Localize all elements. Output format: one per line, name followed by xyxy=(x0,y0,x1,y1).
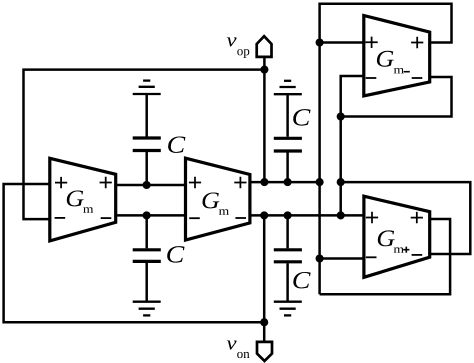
wire v_op feedback loop (top rail, second left vertical, Gm1 -in) xyxy=(24,70,265,220)
capacitor C1 (upper middle) xyxy=(133,138,161,151)
node junction dot v_on rail xyxy=(260,211,268,219)
node junction dot Gm+ -out feedback xyxy=(337,178,345,186)
wire lower rail Gm1 out- to Gm2 in- xyxy=(116,214,186,217)
capacitor C4 value label xyxy=(293,272,310,288)
op-amp Gm1 (left transconductor) xyxy=(50,158,116,241)
wire Gm- -out feedback xyxy=(341,77,452,117)
wire stem lower-middle capacitor bottom xyxy=(145,263,148,302)
wire stem upper-right capacitor bottom xyxy=(286,153,289,183)
wire v_op terminal column xyxy=(263,57,266,182)
wire right main vertical with top loop (Gm- +out feedback) xyxy=(320,4,452,295)
op-amp Gm+ body xyxy=(364,196,430,277)
op-amp U3 Gm- (upper right transconductor) xyxy=(364,16,430,96)
label v_on xyxy=(227,340,250,358)
capacitor C3 value label xyxy=(293,109,310,125)
wire Gm- +in xyxy=(320,41,364,44)
label v_op xyxy=(227,37,249,58)
node junction dot cross-couple rail2 xyxy=(337,211,345,219)
op-amp Gm- pin marks - (in-, out-) xyxy=(366,77,423,79)
op-amp Gm1 pin marks + (in+, out+) xyxy=(55,177,112,189)
capacitor C3 (upper right) xyxy=(274,138,302,151)
op-amp Gm2 pin marks - (in-, out-) xyxy=(189,217,246,219)
wire v_on feedback loop (Gm1 +in, left outer vertical, bottom rail) xyxy=(4,184,265,322)
op-amp Gm2 body xyxy=(186,158,250,240)
wire Gm+ +out bottom feedback xyxy=(320,219,451,294)
node junction dot rail1 mid xyxy=(143,181,151,189)
wire stem lower-right capacitor top xyxy=(286,215,289,248)
node junction dot Gm- -out feedback xyxy=(337,112,345,120)
op-amp Gm1 designator label Gm xyxy=(67,191,93,213)
op-amp Gm2 pin marks + (in+, out+) xyxy=(189,177,247,188)
capacitor C2 value label xyxy=(167,246,184,262)
wire upper right rail Gm2 out+ (node v_op) xyxy=(250,181,320,184)
op-amp Gm+ pin marks + (in+, out+) xyxy=(366,212,423,224)
ground (upper right, inverted) xyxy=(274,81,302,94)
op-amp Gm+ pin marks - (in-, out-) xyxy=(366,255,422,257)
node junction dot v_on bottom xyxy=(260,318,268,326)
op-amp Gm- designator label Gm- xyxy=(377,51,410,74)
node junction dot cap C4 rail xyxy=(284,211,292,219)
wire upper rail Gm1 out+ to Gm2 in+ xyxy=(116,184,186,187)
wire stem upper-middle capacitor top xyxy=(145,94,148,137)
terminal v_on (output arrow down) xyxy=(257,342,272,361)
op-amp Gm+ designator label Gm+ xyxy=(378,230,410,252)
wire Gm+ -out feedback xyxy=(341,182,471,254)
wire stem upper-middle capacitor bottom xyxy=(145,152,148,185)
node junction dot rail2 mid xyxy=(143,211,151,219)
op-amp Gm1 pin marks - (in-, out-) xyxy=(55,217,112,219)
wire stem upper-right capacitor top xyxy=(286,94,289,137)
node junction dot v_op rail xyxy=(260,178,268,186)
capacitor C1 value label xyxy=(168,136,185,152)
node junction dot v_op top xyxy=(260,66,268,74)
node junction dot Gm+ -in xyxy=(316,254,324,262)
node junction dot Gm- +in xyxy=(316,38,324,46)
op-amp Gm- pin marks + (in+, out+) xyxy=(366,37,424,49)
op-amp Gm2 (second transconductor) xyxy=(186,158,250,240)
ground (lower middle) xyxy=(133,302,161,316)
wire lower right rail Gm2 out- to Gm+ in+ (node v_on) xyxy=(250,214,364,217)
wire v_on terminal column xyxy=(263,215,266,342)
op-amp Gm- body xyxy=(364,16,430,96)
terminal v_op (output arrow up) xyxy=(257,36,272,57)
op-amp Gm2 designator label Gm xyxy=(202,193,228,215)
ground (lower right) xyxy=(274,302,302,316)
capacitor C4 (lower right) xyxy=(274,250,302,262)
node junction dot cap C3 rail xyxy=(284,178,292,186)
wire Gm+ -in xyxy=(320,257,364,260)
op-amp U4 Gm+ (lower right transconductor) xyxy=(364,196,430,277)
wire Gm- -in and cross-couple vertical xyxy=(341,76,364,215)
ground (upper middle, inverted) xyxy=(133,81,161,94)
node junction dot rail1 right end xyxy=(316,178,324,186)
wire stem lower-right capacitor bottom xyxy=(286,263,289,301)
wire stem lower-middle capacitor top xyxy=(145,215,148,248)
op-amp Gm1 body xyxy=(50,158,116,241)
capacitor C2 (lower middle) xyxy=(133,250,161,262)
